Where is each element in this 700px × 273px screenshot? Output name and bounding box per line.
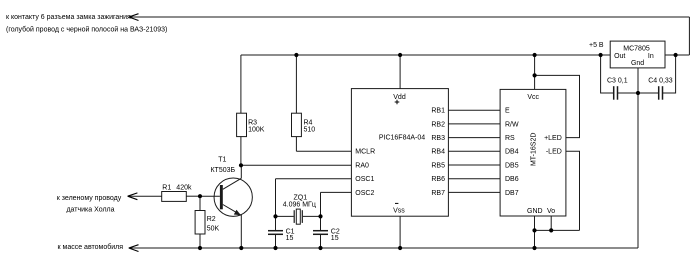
svg-text:420k: 420k [176,185,192,192]
svg-text:RB6: RB6 [431,176,445,183]
wire node RA0 to collector junction [241,164,352,166]
node crystal right [318,214,322,218]
node crystal left [273,214,277,218]
svg-text:Vcc: Vcc [527,94,539,101]
resistor R2 [195,211,205,235]
node RA0 collector junction [239,163,243,167]
node GND lead [532,228,536,232]
svg-text:15: 15 [331,235,339,242]
capacitor C3 plates [613,86,615,100]
crystal ZQ1 left plate [293,210,295,223]
IC U1 PIC16F84A box [351,89,448,217]
node rail C3 [599,53,603,57]
svg-text:Vdd: Vdd [393,94,406,101]
wire RB7 to DB7 [448,191,500,193]
svg-text:4.096 МГц: 4.096 МГц [283,202,316,209]
arrow to hall sensor [128,193,138,196]
wire C2 bottom lead [320,235,322,248]
svg-text:R4: R4 [304,119,313,126]
node rail Vdd [398,53,402,57]
svg-text:RS: RS [505,135,515,142]
wire center node to C4 [638,92,658,94]
node rail R4 [294,53,298,57]
svg-text:Gnd: Gnd [631,60,644,67]
node rail C4/In [674,53,678,57]
arrow to ignition contact [128,14,139,252]
svg-text:RB7: RB7 [431,190,445,197]
svg-text:датчика Холла: датчика Холла [66,207,114,214]
svg-text:к зеленому проводу: к зеленому проводу [57,195,122,202]
wire C4 to In node [663,55,676,93]
svg-text:Vo: Vo [547,208,555,215]
svg-text:RB3: RB3 [431,135,445,142]
wire R4 bottom lead [295,137,297,152]
svg-text:DB6: DB6 [505,176,519,183]
svg-text:DB5: DB5 [505,162,519,169]
wire R4 top lead [295,55,297,113]
wire C1 bottom lead [275,235,277,248]
wire R1 to base junction [186,195,200,197]
wire T1 collector vertical [240,165,242,178]
svg-text:DB7: DB7 [505,190,519,197]
svg-text:OSC1: OSC1 [355,176,374,183]
wire right vertical from top line to +5V row [688,17,690,55]
wire -LED branch [566,151,580,230]
svg-text:к массе автомобиля: к массе автомобиля [58,243,124,251]
label plus under Vdd [395,100,400,105]
wire RB1 to E [448,109,500,111]
wire ground rail [129,247,638,249]
wire RB3 to RS [448,137,500,139]
svg-text:RB1: RB1 [431,108,445,115]
node +LED tee [533,73,537,77]
capacitor C2 plates [313,230,328,232]
svg-text:PIC16F84A-04: PIC16F84A-04 [379,135,425,142]
svg-text:510: 510 [304,127,316,134]
svg-text:R1: R1 [162,185,171,192]
svg-text:GND: GND [527,208,543,215]
svg-text:КТ503Б: КТ503Б [210,167,235,174]
wire hall sensor line [128,195,162,197]
wire Vss lead [399,216,401,248]
svg-text:C4 0,33: C4 0,33 [648,77,673,84]
wire C2 top lead [320,216,322,230]
svg-text:100K: 100K [248,127,265,134]
svg-text:+LED: +LED [544,135,562,142]
wire base junction to T1 base [200,195,220,197]
svg-text:In: In [648,53,654,60]
wire top ignition line [129,16,690,18]
wire MCLR line [296,150,351,152]
svg-text:T1: T1 [218,157,226,164]
node rail Vss [398,246,402,250]
svg-text:C3 0,1: C3 0,1 [607,77,628,84]
wire LCD Vcc lead [534,55,536,89]
transistor T1 emitter diagonal [223,205,242,216]
svg-text:MC7805: MC7805 [623,46,650,53]
wire OSC2 down lead [320,192,322,216]
wire crystal right link [303,215,321,217]
wire RB2 to R/W [448,123,500,125]
resistor R3 [237,113,247,136]
wire GND-Vo- -LED link [535,229,580,231]
svg-text:MCLR: MCLR [355,149,375,156]
wire R3 top lead [240,55,242,113]
node C3 C4 gnd [636,91,640,95]
wire R2 bottom lead [199,234,201,248]
transistor Q1 T1 circle [214,178,252,216]
svg-text:OSC2: OSC2 [355,190,374,197]
wire OSC2 line [321,191,352,193]
svg-text:к контакту 6 разъема замка заж: к контакту 6 разъема замка зажигания [6,14,131,21]
svg-text:-LED: -LED [546,149,562,156]
node rail GND [532,246,536,250]
node rail emitter [239,246,243,250]
capacitor C1 plates [268,230,283,232]
node base junction [198,194,202,198]
wire from corner to MC7805 In [665,54,689,56]
node rail R2 [198,246,202,250]
crystal ZQ1 body box [296,209,300,224]
capacitor C4 plates [658,86,660,100]
wire RB5 to DB5 [448,164,500,166]
wire C1 top lead [275,216,277,230]
svg-text:R2: R2 [207,216,216,223]
svg-text:R/W: R/W [505,121,519,128]
wire +5V rail [241,54,610,56]
wire LCD GND lead [534,216,536,248]
wire OSC1 line [276,178,352,180]
svg-text:DB4: DB4 [505,149,519,156]
svg-text:Vss: Vss [393,208,405,215]
svg-text:RA0: RA0 [355,162,369,169]
wire R3 bottom lead [240,137,242,166]
wire T1 emitter vertical [240,215,242,248]
wire +LED branch [535,75,580,137]
svg-text:RB5: RB5 [431,162,445,169]
node rail C1 [273,246,277,250]
svg-text:+5 В: +5 В [589,42,604,49]
resistor R4 [292,113,302,136]
svg-text:R3: R3 [248,119,257,126]
wire RB4 to DB4 [448,150,500,152]
wire C3 to center node [618,92,638,94]
svg-text:E: E [505,108,510,115]
resistor R1 [162,192,187,202]
crystal ZQ1 right plate [301,210,303,223]
svg-text:RB4: RB4 [431,149,445,156]
transistor T1 base bar [220,185,223,209]
svg-text:Out: Out [614,53,625,60]
wire OSC1 down lead [275,179,277,217]
wire MC7805 Gnd vertical [637,68,639,248]
transistor T1 collector diagonal [223,178,242,189]
arrow to car ground [129,245,139,248]
node rail C2 [318,246,322,250]
wire R2 top lead [199,196,201,210]
regulator MC7805 box [610,41,665,68]
svg-text:MT-16S2D: MT-16S2D [531,133,538,166]
wire LCD Vo lead [550,216,552,230]
svg-text:15: 15 [286,235,294,242]
wire RB6 to DB6 [448,178,500,180]
transistor T1 emitter arrowhead [234,210,241,215]
svg-text:50K: 50K [207,226,220,233]
svg-text:(голубой провод с черной полос: (голубой провод с черной полосой на ВАЗ-… [6,25,167,33]
label minus above Vss [395,202,398,204]
node Vo lead [549,228,553,232]
node rail Vcc [533,53,537,57]
wire C3 branch from rail [601,55,614,93]
svg-text:RB2: RB2 [431,121,445,128]
LCD module MT-16S2D box [500,89,566,216]
wire crystal left link [276,215,294,217]
wire Vdd lead [399,55,401,89]
